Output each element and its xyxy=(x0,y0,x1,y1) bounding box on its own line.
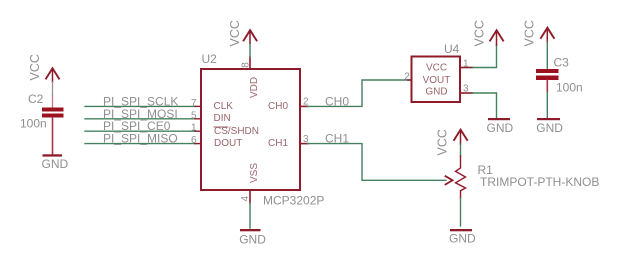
svg-text:GND: GND xyxy=(239,233,266,247)
svg-text:CLK: CLK xyxy=(214,101,234,112)
svg-text:8: 8 xyxy=(241,62,252,68)
svg-text:3: 3 xyxy=(303,134,309,145)
svg-text:MCP3202P: MCP3202P xyxy=(263,194,324,208)
svg-text:CH1: CH1 xyxy=(325,132,349,146)
svg-text:CH1: CH1 xyxy=(268,138,288,149)
svg-text:3: 3 xyxy=(463,84,469,95)
svg-text:VCC: VCC xyxy=(228,20,242,46)
svg-text:VCC: VCC xyxy=(426,63,447,74)
svg-text:GND: GND xyxy=(487,121,514,135)
svg-text:GND: GND xyxy=(42,157,69,171)
svg-text:CH0: CH0 xyxy=(325,94,349,108)
svg-text:C3: C3 xyxy=(554,56,570,70)
svg-text:GND: GND xyxy=(449,232,476,246)
svg-text:VCC: VCC xyxy=(28,54,42,80)
svg-text:CS/SHDN: CS/SHDN xyxy=(214,126,259,137)
svg-text:5: 5 xyxy=(191,110,197,121)
svg-text:U2: U2 xyxy=(202,52,218,66)
svg-text:TRIMPOT-PTH-KNOB: TRIMPOT-PTH-KNOB xyxy=(480,175,599,189)
svg-text:100n: 100n xyxy=(20,117,47,131)
svg-text:2: 2 xyxy=(404,71,410,82)
svg-text:4: 4 xyxy=(240,196,251,202)
svg-text:PI_SPI_MISO: PI_SPI_MISO xyxy=(103,132,178,146)
svg-text:C2: C2 xyxy=(28,92,44,106)
svg-text:1: 1 xyxy=(191,123,197,134)
svg-text:100n: 100n xyxy=(556,81,583,95)
svg-text:1: 1 xyxy=(463,59,469,70)
svg-text:VDD: VDD xyxy=(249,77,260,98)
svg-text:VCC: VCC xyxy=(523,20,537,46)
svg-text:VCC: VCC xyxy=(473,20,487,46)
svg-text:GND: GND xyxy=(536,121,563,135)
svg-text:GND: GND xyxy=(425,87,447,98)
svg-text:2: 2 xyxy=(303,97,309,108)
svg-text:6: 6 xyxy=(191,135,197,146)
svg-text:U4: U4 xyxy=(444,42,460,56)
svg-text:DOUT: DOUT xyxy=(214,138,242,149)
svg-text:CH0: CH0 xyxy=(268,101,288,112)
svg-text:VSS: VSS xyxy=(249,163,260,183)
svg-text:VOUT: VOUT xyxy=(423,75,451,86)
svg-text:DIN: DIN xyxy=(214,113,231,124)
svg-text:VCC: VCC xyxy=(436,129,450,155)
svg-text:7: 7 xyxy=(191,98,197,109)
